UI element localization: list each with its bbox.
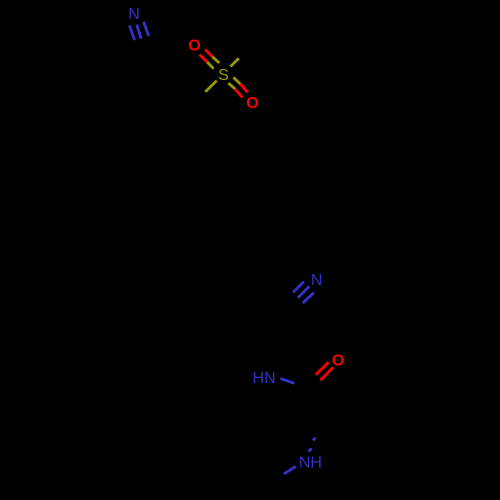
sulfonyl S=O upper double bond <box>200 50 220 69</box>
svg-text:N: N <box>311 272 323 289</box>
amide N-C bond <box>280 379 294 384</box>
ring N-H dashed stereo bond dash 2 <box>313 438 316 441</box>
nitrile 2 triple bond C#N <box>293 282 314 304</box>
svg-text:O: O <box>188 38 200 55</box>
svg-text:S: S <box>218 67 229 84</box>
nitrile 1 triple bond C#N <box>130 22 149 41</box>
bond S-CH3 <box>231 58 239 66</box>
svg-text:NH: NH <box>299 455 322 472</box>
ring N-C bond lower left <box>284 467 296 474</box>
svg-text:O: O <box>332 352 344 369</box>
ring N-H dashed stereo bond dash 1 <box>308 448 312 451</box>
svg-text:N: N <box>128 6 140 23</box>
bond S-ring <box>205 81 217 92</box>
carbonyl C=O double bond <box>316 362 333 380</box>
svg-text:HN: HN <box>253 370 276 387</box>
svg-text:O: O <box>246 95 258 112</box>
sulfonyl S=O lower double bond <box>228 77 247 97</box>
